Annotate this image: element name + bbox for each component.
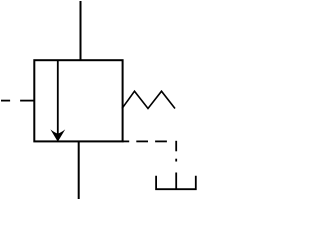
tank symbol (156, 176, 196, 190)
pilot line left (dashed) (1, 100, 34, 102)
drain pilot line horizontal (dashed) (123, 140, 167, 142)
spring (122, 91, 175, 108)
flow path line inside valve (57, 60, 59, 136)
valve body envelope (pressure relief valve) (34, 60, 122, 141)
wire bottom port T line (78, 141, 80, 199)
flow path arrowhead (50, 129, 65, 141)
drain pilot line vertical (dash-dot) (175, 141, 177, 189)
wire top port P line (80, 1, 82, 60)
